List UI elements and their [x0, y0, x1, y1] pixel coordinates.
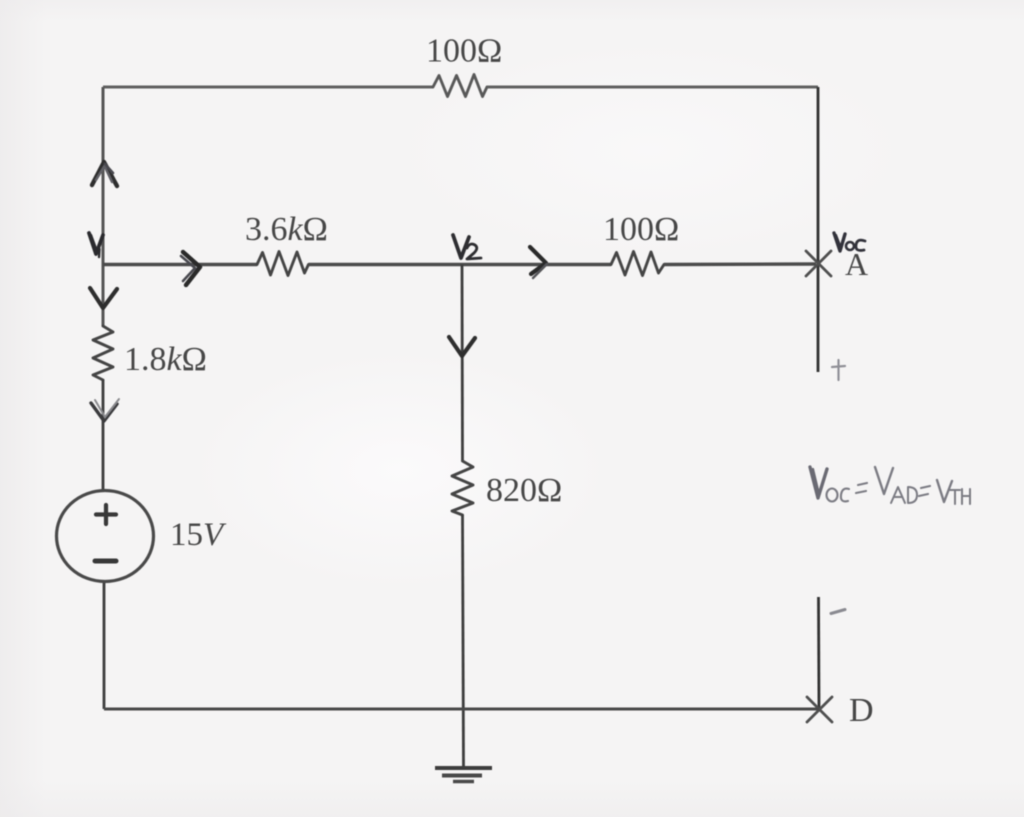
- current arrow down (through 820): [449, 337, 475, 356]
- resistor R1 1.8kohm vertical zigzag: [93, 326, 113, 380]
- current arrow down (above source): [91, 403, 117, 421]
- wire: middle vertical V2 branch: [461, 265, 464, 462]
- svg-text:15V: 15V: [170, 517, 227, 553]
- resistor R_top 100ohm zigzag: [433, 75, 487, 97]
- resistor R4 820ohm vertical zigzag: [452, 461, 473, 515]
- svg-text:820Ω: 820Ω: [486, 472, 562, 509]
- current arrow down (into 1.8k): [90, 288, 117, 308]
- wire: right vertical upper (to node A): [817, 87, 820, 372]
- svg-text:1.8kΩ: 1.8kΩ: [124, 341, 207, 378]
- wire: middle horizontal V2 to 100ohm: [462, 263, 611, 266]
- wire: right vertical lower (to node D): [817, 597, 820, 709]
- plus sign inside source: [96, 505, 116, 524]
- node V1 label: [89, 233, 103, 254]
- wire: left vertical below source to bottom rail: [103, 583, 106, 709]
- wire: middle horizontal 100ohm to node A: [664, 262, 816, 266]
- node A open-circuit label Voc (handwritten): [834, 233, 845, 251]
- node D X mark: [807, 697, 832, 722]
- svg-text:A: A: [845, 246, 868, 282]
- resistor R2 3.6kohm zigzag: [257, 252, 309, 276]
- svg-text:100Ω: 100Ω: [426, 33, 502, 70]
- minus sign inside source: [95, 559, 116, 564]
- wire: middle horizontal V1 to 3.6k: [103, 263, 257, 266]
- wire: top horizontal left part: [103, 86, 433, 89]
- voltage source V 15V: [57, 491, 154, 582]
- svg-text:3.6kΩ: 3.6kΩ: [245, 211, 328, 248]
- node V2 label: [453, 235, 469, 258]
- resistor R3 100ohm zigzag: [611, 252, 664, 276]
- handwritten note Voc = VAD = VTH (pencil): [810, 467, 970, 504]
- minus polarity mark (pencil): [831, 610, 845, 614]
- wire: left vertical below R1: [102, 380, 105, 491]
- svg-text:100Ω: 100Ω: [603, 211, 679, 248]
- wire: left vertical (node V1 rail): [102, 87, 105, 326]
- wire: middle horizontal 3.6k to V2: [309, 263, 463, 266]
- ground symbol: [435, 766, 492, 770]
- svg-text:D: D: [849, 692, 874, 729]
- wire: middle vertical below 820 to bottom rail and ground: [463, 515, 464, 767]
- wire: bottom horizontal rail: [104, 708, 819, 711]
- node A X mark: [806, 251, 831, 276]
- current arrow up (left branch): [92, 162, 117, 186]
- current arrow right (through 3.6k): [183, 252, 200, 285]
- plus polarity mark (pencil): [832, 360, 845, 380]
- current arrow right (through 100ohm): [530, 247, 546, 274]
- wire: top horizontal right part: [487, 86, 818, 89]
